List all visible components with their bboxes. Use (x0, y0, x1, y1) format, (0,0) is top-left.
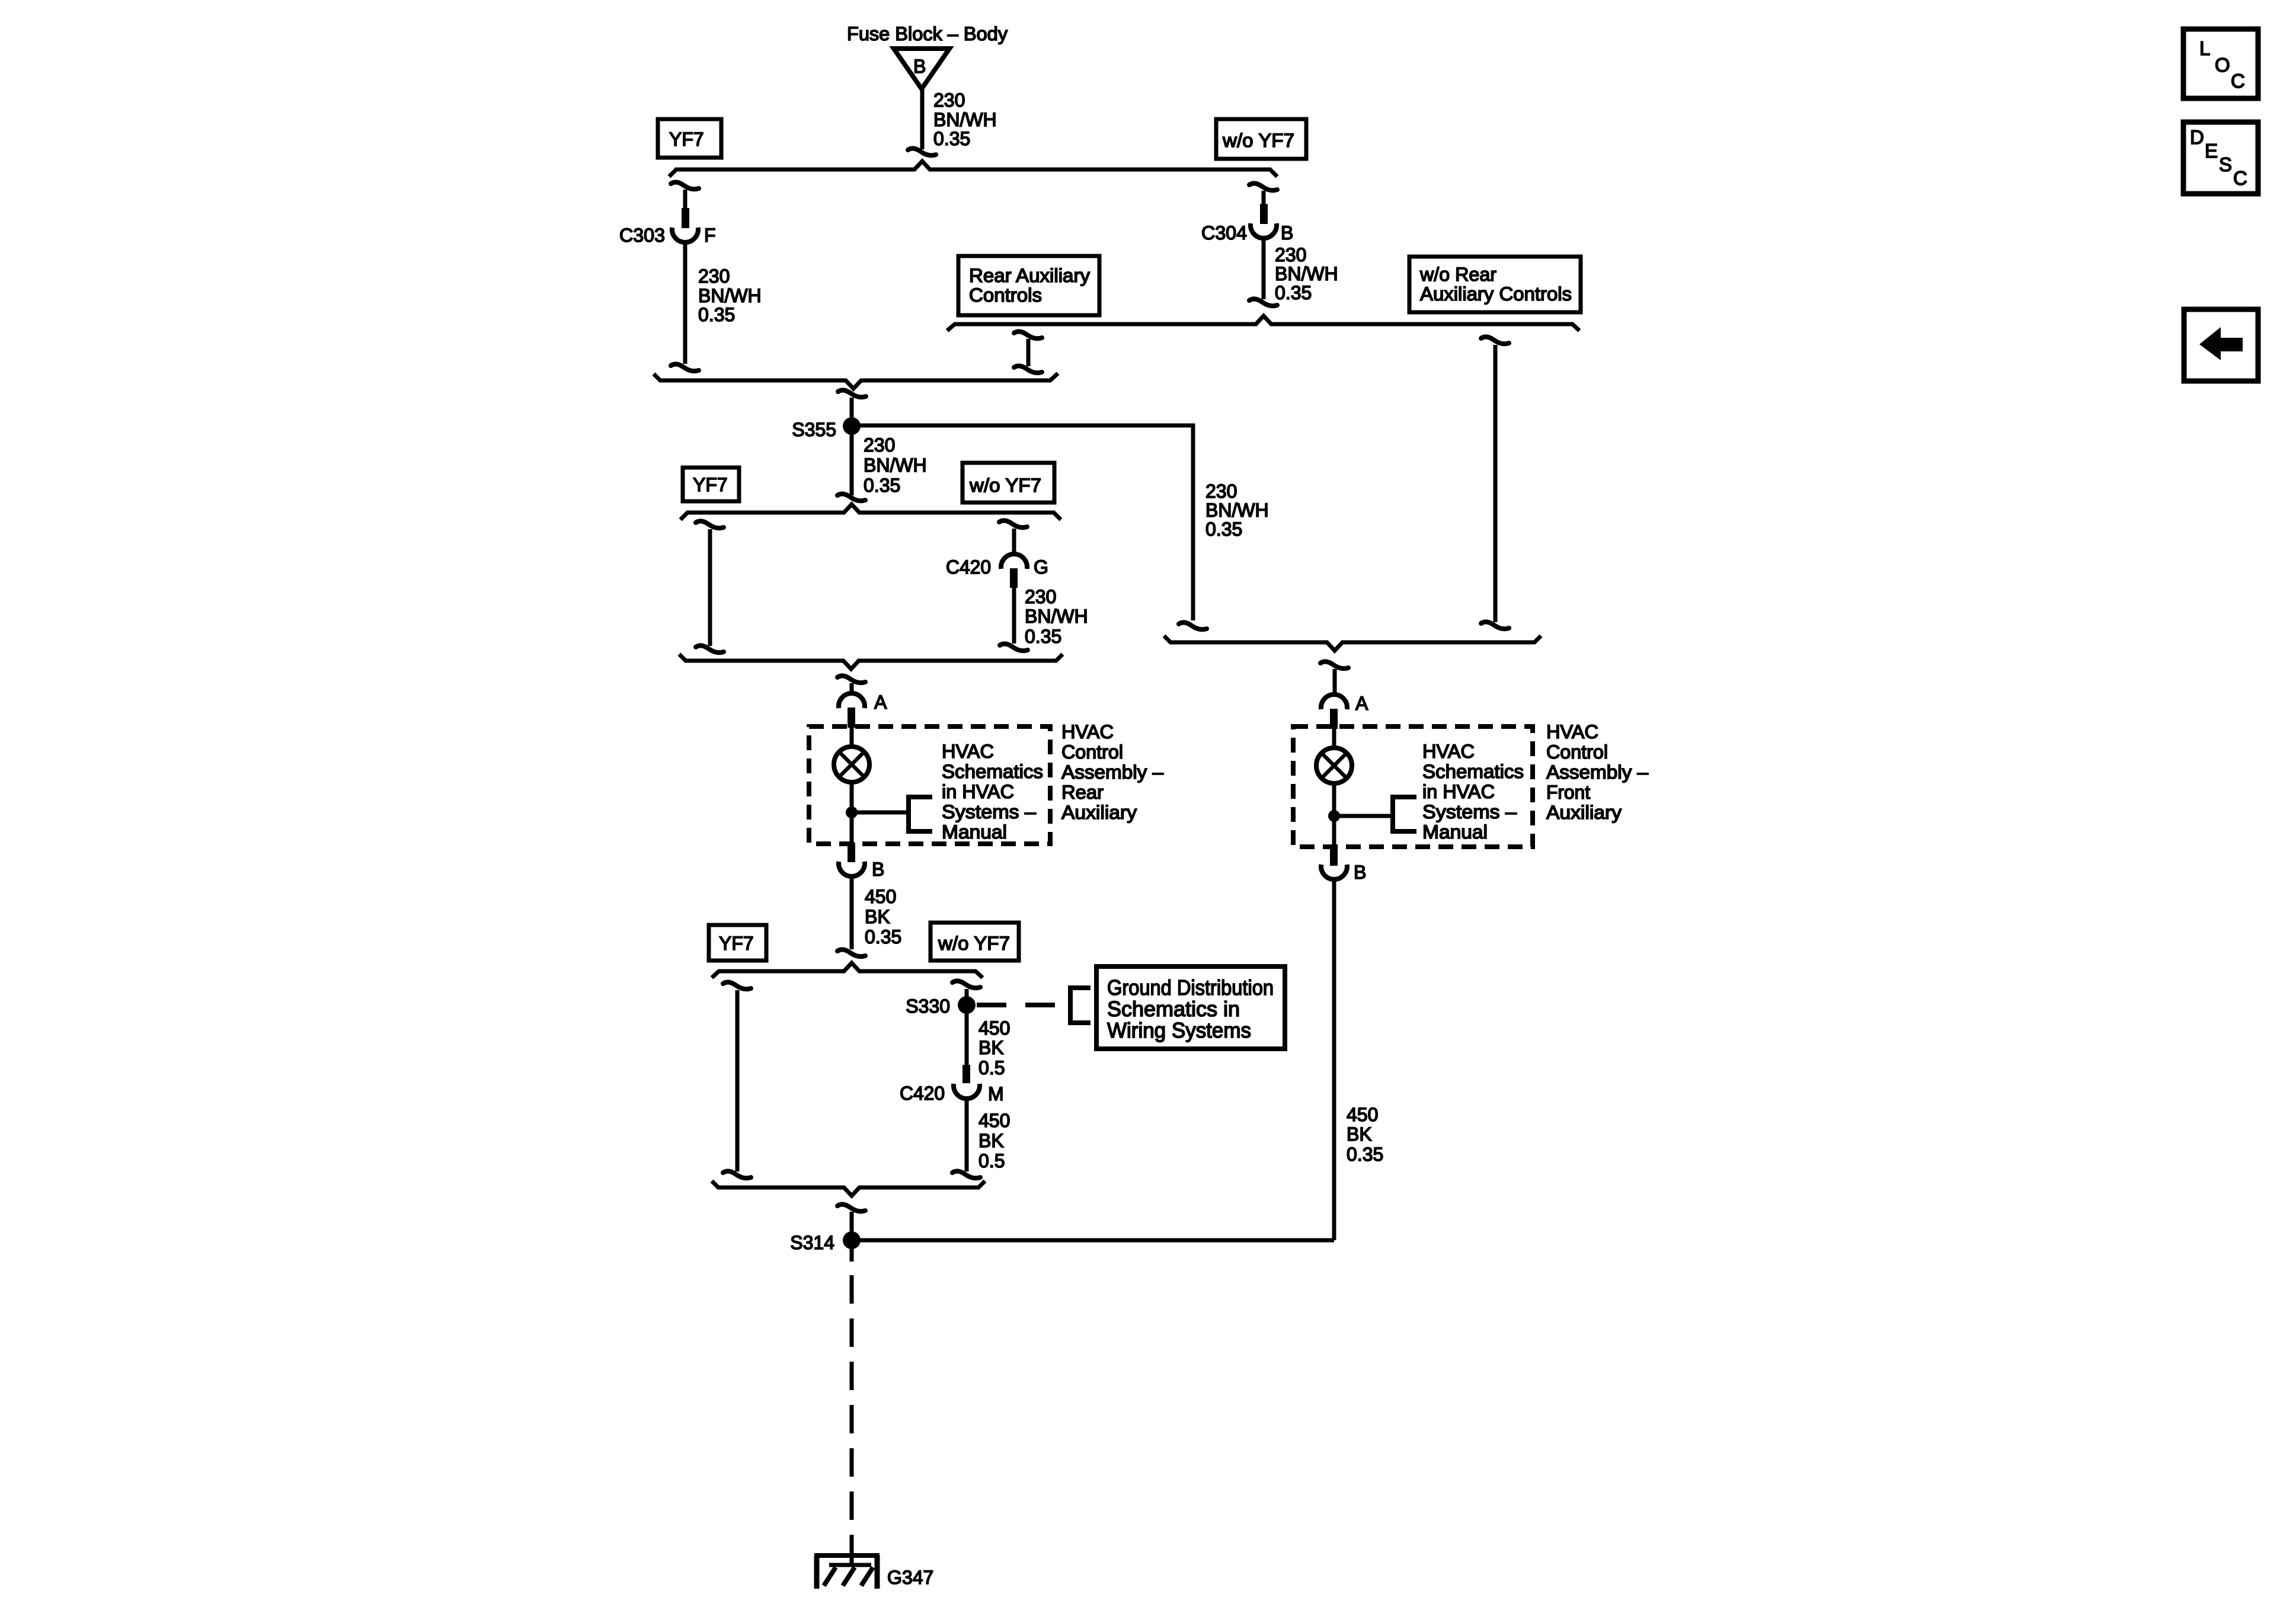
wire to HVAC front pin A (1333, 669, 1337, 696)
svg-text:S355: S355 (792, 419, 836, 440)
svg-text:C304: C304 (1201, 222, 1247, 244)
svg-text:Schematics in: Schematics in (1107, 997, 1240, 1021)
svg-text:Systems –: Systems – (1422, 801, 1517, 822)
gather brace 4 (1164, 636, 1541, 651)
svg-text:Schematics: Schematics (942, 761, 1043, 782)
connector C303 pin F (619, 208, 716, 246)
svg-text:Assembly –: Assembly – (1546, 761, 1648, 783)
svg-text:A: A (1355, 693, 1368, 714)
option label box w/o YF7 (962, 463, 1054, 502)
wire label 450 BK 0.5 (978, 1017, 1010, 1078)
svg-text:YF7: YF7 (719, 933, 754, 954)
wire to connector C303 (683, 190, 687, 210)
dashed component box HVAC Control Assembly Rear Auxiliary (809, 726, 1050, 844)
svg-text:C: C (2231, 70, 2245, 92)
wire lamp to pin B (850, 782, 854, 844)
dashed component box HVAC Control Assembly Front Auxiliary (1293, 726, 1533, 847)
dashed reference wire from S330 (977, 1003, 1070, 1007)
wire end hook above brace 3 (671, 364, 699, 371)
navigation button DESC (2183, 122, 2258, 194)
connector C304 pin B (1201, 204, 1293, 244)
hook below brace 4 notch (1320, 661, 1348, 668)
svg-text:Assembly –: Assembly – (1061, 761, 1163, 783)
wire label 230 BN/WH 0.35 (933, 89, 997, 149)
svg-text:Auxiliary Controls: Auxiliary Controls (1420, 283, 1572, 305)
option split brace 2 (Rear Auxiliary Controls / w/o) (947, 316, 1579, 331)
option split brace 1 (YF7 / w/o YF7) (669, 161, 1277, 177)
svg-text:A: A (874, 692, 887, 713)
splice S314 (790, 1231, 861, 1253)
svg-text:BK: BK (1347, 1124, 1372, 1145)
option split brace 7 (YF7 / w/o YF7) (712, 963, 983, 978)
junction node (1328, 810, 1340, 822)
svg-text:BK: BK (978, 1037, 1004, 1058)
tall wire for w/o Rear Auxiliary Controls option (1481, 337, 1509, 629)
svg-text:in HVAC: in HVAC (942, 781, 1014, 802)
svg-text:BN/WH: BN/WH (698, 285, 762, 306)
svg-text:in HVAC: in HVAC (1422, 781, 1495, 802)
splice S355 (792, 417, 861, 440)
svg-text:BN/WH: BN/WH (864, 454, 927, 476)
svg-text:HVAC: HVAC (942, 741, 994, 762)
wire label 230 BN/WH 0.35 (1275, 244, 1338, 303)
component label HVAC Control Assembly - Front Auxiliary (1546, 721, 1648, 823)
svg-text:0.35: 0.35 (698, 304, 735, 325)
wire end hook above brace 1 (908, 148, 936, 155)
svg-text:w/o Rear: w/o Rear (1419, 264, 1496, 285)
dashed wire S314 to ground (850, 1240, 854, 1262)
wire end hook above brace 6 (1000, 644, 1028, 651)
svg-text:230: 230 (933, 89, 965, 111)
rear auxiliary illumination lamp (834, 747, 869, 782)
svg-text:Rear: Rear (1061, 782, 1104, 803)
note text HVAC Schematics in HVAC Systems - Manual (1422, 741, 1524, 843)
svg-text:Systems –: Systems – (942, 801, 1036, 822)
svg-text:450: 450 (1347, 1104, 1378, 1125)
navigation button LOC (2183, 29, 2258, 98)
svg-text:M: M (988, 1083, 1004, 1105)
option label box YF7 (683, 468, 739, 501)
svg-text:L: L (2199, 37, 2210, 59)
svg-text:Front: Front (1546, 782, 1590, 803)
wire to splice S314 (850, 1212, 854, 1261)
reference box Ground Distribution Schematics in Wiring Systems (1096, 966, 1285, 1049)
svg-text:B: B (1354, 862, 1366, 883)
wire label 450 BK 0.35 (1347, 1104, 1383, 1165)
svg-text:w/o YF7: w/o YF7 (1222, 130, 1294, 151)
option label box Rear Auxiliary Controls (958, 256, 1099, 315)
wire below C420 M (965, 1099, 969, 1172)
component label HVAC Control Assembly - Rear Auxiliary (1061, 721, 1163, 823)
svg-text:C: C (2233, 167, 2247, 189)
svg-text:C420: C420 (946, 556, 991, 578)
svg-text:F: F (704, 225, 716, 246)
splice S330 (906, 996, 976, 1017)
svg-text:0.35: 0.35 (933, 128, 970, 149)
svg-text:G: G (1034, 556, 1048, 578)
hook below brace 3 notch (838, 390, 866, 397)
svg-text:Fuse Block – Body: Fuse Block – Body (847, 23, 1008, 44)
svg-text:Controls: Controls (969, 284, 1042, 306)
svg-text:B: B (1281, 222, 1293, 244)
svg-text:230: 230 (698, 265, 730, 287)
wire from S355 to right branch (852, 425, 1193, 620)
hook below brace 8 notch (837, 1204, 865, 1211)
svg-text:S: S (2219, 153, 2232, 175)
connector C420 pin G (946, 554, 1048, 588)
svg-text:Ground Distribution: Ground Distribution (1107, 975, 1274, 1000)
wire end hook above brace 5 (837, 494, 865, 501)
wire to connector C304 (1262, 191, 1266, 206)
w/o YF7 option wire to S330 (952, 981, 980, 988)
w/o YF7 option wire to C420 G (999, 520, 1027, 527)
hook below brace1 right (1249, 183, 1277, 190)
wire below pin B (850, 876, 854, 949)
option label box w/o YF7 (930, 923, 1019, 961)
wire label 450 BK 0.35 (865, 886, 901, 948)
svg-text:Manual: Manual (942, 821, 1007, 843)
option split brace 5 (YF7 / w/o YF7) (680, 504, 1061, 520)
svg-text:Control: Control (1061, 741, 1123, 763)
YF7 option plain wire (696, 521, 724, 652)
wire end hook above brace 8 (952, 1171, 980, 1178)
reference tap wire (852, 811, 909, 815)
svg-text:S330: S330 (906, 996, 950, 1017)
wire below C304 (1262, 237, 1266, 299)
svg-text:C420: C420 (900, 1083, 945, 1104)
YF7 option plain wire (723, 982, 751, 1178)
svg-text:Control: Control (1546, 741, 1608, 763)
svg-text:Auxiliary: Auxiliary (1061, 802, 1137, 823)
svg-text:YF7: YF7 (693, 474, 728, 495)
option label box YF7 (709, 925, 766, 961)
svg-text:0.5: 0.5 (978, 1057, 1005, 1078)
option label box w/o YF7 (1216, 119, 1306, 159)
wire label 450 BK 0.5 (978, 1110, 1010, 1172)
svg-text:0.35: 0.35 (1025, 626, 1061, 647)
navigation button back arrow (2184, 309, 2258, 381)
svg-text:0.35: 0.35 (865, 926, 901, 948)
svg-text:Auxiliary: Auxiliary (1546, 802, 1622, 823)
wire end hook above brace 4 (1179, 622, 1207, 629)
hook below brace1 left (671, 182, 699, 189)
svg-text:C303: C303 (619, 225, 665, 246)
svg-text:O: O (2215, 54, 2230, 76)
svg-text:230: 230 (864, 434, 895, 456)
gather brace 8 (712, 1181, 985, 1196)
svg-text:E: E (2205, 140, 2218, 162)
svg-text:450: 450 (978, 1110, 1010, 1131)
hook below brace 6 notch (837, 676, 865, 683)
svg-text:Wiring Systems: Wiring Systems (1107, 1018, 1251, 1042)
svg-text:0.35: 0.35 (1205, 518, 1242, 540)
svg-text:BN/WH: BN/WH (1205, 500, 1269, 521)
gather brace 6 (679, 654, 1063, 669)
ground G347 (814, 1555, 933, 1589)
reference tap wire (1334, 814, 1393, 818)
wire pin A to lamp (850, 728, 854, 746)
wire to HVAC rear pin A (850, 683, 854, 694)
option label box YF7 (658, 119, 721, 158)
svg-text:BK: BK (978, 1130, 1004, 1151)
reference bracket (1393, 797, 1416, 831)
svg-text:0.35: 0.35 (1347, 1144, 1383, 1165)
svg-text:HVAC: HVAC (1422, 741, 1475, 762)
wire label 230 BN/WH 0.35 below S355 (864, 434, 927, 496)
svg-text:w/o YF7: w/o YF7 (969, 475, 1041, 496)
svg-text:S314: S314 (790, 1232, 834, 1253)
svg-text:450: 450 (865, 886, 896, 907)
svg-text:YF7: YF7 (669, 129, 704, 150)
front auxiliary illumination lamp (1316, 748, 1352, 783)
svg-text:D: D (2190, 126, 2204, 148)
wire end hook above brace 2 notch (1249, 299, 1277, 306)
wire pin A to lamp (1332, 729, 1336, 747)
wire below C420 G (1012, 587, 1016, 644)
svg-text:0.5: 0.5 (978, 1150, 1005, 1172)
reference bracket (909, 797, 932, 831)
svg-text:BK: BK (865, 906, 890, 927)
option label box w/o Rear Auxiliary Controls (1409, 257, 1581, 312)
wire from brace 3 to splice S355 (850, 398, 854, 495)
svg-text:BN/WH: BN/WH (1025, 606, 1088, 627)
svg-text:Schematics: Schematics (1422, 761, 1524, 782)
wire lamp to pin B (1332, 784, 1336, 850)
wire below C303 (683, 243, 687, 364)
svg-text:HVAC: HVAC (1061, 721, 1114, 742)
reference bracket (1070, 988, 1091, 1023)
wire S314 to right branch (852, 1238, 1334, 1243)
svg-text:w/o YF7: w/o YF7 (938, 933, 1010, 954)
svg-text:230: 230 (1205, 481, 1237, 502)
note text HVAC Schematics in HVAC Systems - Manual (942, 741, 1043, 843)
svg-text:0.35: 0.35 (864, 475, 900, 496)
svg-text:230: 230 (1025, 586, 1056, 607)
svg-text:Manual: Manual (1422, 821, 1488, 843)
pin B terminal (rear assembly) (839, 843, 884, 880)
wire label 230 BN/WH 0.35 (1025, 586, 1088, 647)
gather brace 3 (654, 373, 1058, 389)
wire label 230 BN/WH 0.35 (698, 265, 762, 325)
fuse block connector triangle B (894, 49, 949, 89)
svg-text:G347: G347 (887, 1567, 933, 1588)
svg-text:0.35: 0.35 (1275, 282, 1312, 303)
pin B terminal (front assembly) (1321, 846, 1366, 883)
wire end hook above brace 7 (837, 949, 865, 956)
connector C420 pin M (900, 1065, 1004, 1105)
junction node (846, 806, 858, 818)
svg-text:BN/WH: BN/WH (933, 109, 997, 130)
svg-text:450: 450 (978, 1017, 1010, 1039)
wire from fuse block down (920, 89, 925, 149)
pin A terminal (rear assembly) (839, 692, 887, 728)
wire below pin B down to S314 (1332, 879, 1336, 1240)
short jumper wire under Rear Auxiliary Controls (1014, 331, 1042, 373)
svg-text:HVAC: HVAC (1546, 721, 1598, 742)
pin A terminal (front assembly) (1321, 693, 1368, 729)
wire label 230 BN/WH 0.35 (right long wire) (1205, 481, 1269, 540)
svg-text:Rear Auxiliary: Rear Auxiliary (969, 265, 1090, 286)
svg-text:BN/WH: BN/WH (1275, 263, 1338, 284)
svg-text:B: B (913, 56, 926, 77)
svg-text:B: B (872, 859, 884, 880)
svg-text:230: 230 (1275, 244, 1306, 265)
